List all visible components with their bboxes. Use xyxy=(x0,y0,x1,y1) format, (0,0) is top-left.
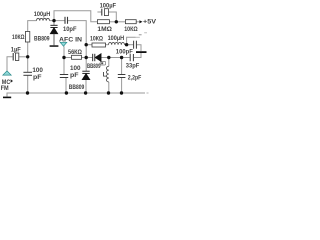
ground G2 bottom-left xyxy=(3,97,11,99)
wire 1uF to node G xyxy=(19,56,27,58)
svg-text:FM: FM xyxy=(1,85,9,92)
svg-text:BB809: BB809 xyxy=(34,35,50,42)
svg-text:1МΩ: 1МΩ xyxy=(97,26,112,33)
svg-text:BB809: BB809 xyxy=(69,84,85,91)
bottom ground rail xyxy=(7,93,145,97)
+5V arrow xyxy=(139,20,142,23)
wire AFC terminal down to node D xyxy=(63,46,65,57)
wire node G down to 100pF C1 xyxy=(27,57,29,72)
varactor D1 BB809 xyxy=(50,21,57,46)
wire 1M to node H to 10K xyxy=(110,21,126,23)
capacitor 33pF xyxy=(130,54,133,61)
junction dot node E xyxy=(107,56,110,59)
junction dot node G xyxy=(26,55,29,58)
svg-text:10КΩ: 10КΩ xyxy=(90,36,103,43)
junction dot rail 4 xyxy=(107,91,110,94)
capacitor C1 100pF xyxy=(23,72,32,75)
resistor R5 10K xyxy=(125,20,136,24)
capacitor C2 100pF xyxy=(60,75,68,78)
wire 10K to +5V arrow xyxy=(136,21,139,23)
svg-text:BB809: BB809 xyxy=(87,63,101,70)
wire node B to varactor D3 xyxy=(86,57,92,59)
svg-text:100µH: 100µH xyxy=(34,11,51,18)
junction dot node H xyxy=(115,20,118,23)
ground G1 xyxy=(50,45,59,47)
wire node E to node F xyxy=(109,57,122,59)
wire 2.2pF down to rail xyxy=(121,78,123,93)
AFC IN terminal teal xyxy=(60,42,67,46)
svg-text:10КΩ: 10КΩ xyxy=(124,26,138,33)
resistor R4 1M xyxy=(97,20,109,24)
capacitor 100uF polarized top xyxy=(102,9,109,16)
wire D3 to node E xyxy=(101,57,109,59)
resistor R1 10K vertical xyxy=(25,32,29,43)
RF out faded dashes xyxy=(139,34,142,36)
ground G3 right xyxy=(136,51,147,53)
svg-text:+5V: +5V xyxy=(143,19,156,26)
RF out line faded tail xyxy=(136,36,140,38)
junction dot node D xyxy=(62,56,65,59)
junction dot rail 5 xyxy=(120,91,123,94)
wire node C up and out (RF out) xyxy=(127,37,136,44)
svg-text:100µH: 100µH xyxy=(108,35,125,42)
wire 100uF right down to node H xyxy=(108,12,116,22)
junction dot rail 3 xyxy=(84,91,87,94)
svg-text:33pF: 33pF xyxy=(126,63,140,70)
wire FM terminal up to 1uF cap xyxy=(7,57,13,71)
svg-text:56КΩ: 56КΩ xyxy=(68,49,82,56)
wire node F down to 2.2pF xyxy=(121,58,123,75)
wire node D to resistor R2 xyxy=(64,57,72,59)
junction dot node A xyxy=(52,19,55,22)
wire top-left corner to resistor R1 xyxy=(28,21,37,32)
svg-text:100: 100 xyxy=(70,65,81,72)
wire 100pF C1 down to rail xyxy=(27,75,29,93)
junction dot node B2 xyxy=(85,56,88,59)
junction dot node B1 xyxy=(85,43,88,46)
capacitor 100pF tank xyxy=(134,41,137,49)
FM terminal teal xyxy=(3,71,11,75)
wire R3 to inductor L2 xyxy=(106,44,109,46)
svg-text:10КΩ: 10КΩ xyxy=(12,34,25,41)
wire inductor L1 to junction A to 10pF xyxy=(50,20,65,22)
inductor L1 100uH xyxy=(37,18,50,20)
svg-text:pF: pF xyxy=(33,74,42,81)
varactor D2 BB809 xyxy=(82,71,89,79)
svg-text:10pF: 10pF xyxy=(63,26,77,33)
wire varactor D2 down to rail xyxy=(85,80,87,93)
wire R1 down to node G xyxy=(27,42,29,57)
wire node A up to top rail xyxy=(54,11,97,22)
svg-text:100µF: 100µF xyxy=(100,3,117,10)
junction dot rail 1 xyxy=(26,91,29,94)
wire R2 to node B xyxy=(82,57,87,59)
capacitor 2.2pF xyxy=(118,75,126,78)
inductor L2 100uH xyxy=(109,42,125,44)
svg-text:2,2pF: 2,2pF xyxy=(128,75,142,82)
wire node F to 33pF xyxy=(122,57,130,59)
wire node E down to coil L3 xyxy=(108,58,110,67)
resistor R2 56K xyxy=(72,55,82,59)
rail end dash xyxy=(147,92,149,94)
wire node B to resistor R3 xyxy=(86,44,92,46)
L3 adjustment box xyxy=(100,61,105,65)
wire 100pF tank cap to ground G3 xyxy=(137,45,141,51)
wire 100uF stub left xyxy=(97,11,101,13)
wire chain B to varactor D2 xyxy=(85,58,87,72)
wire 33pF to ground G3 from below xyxy=(134,53,141,58)
junction dot rail 2 xyxy=(65,91,68,94)
varactor D3 BB809 horizontal xyxy=(93,54,101,61)
wire node D down to 100pF C2 xyxy=(63,58,65,75)
wire 10pF right to chain B down xyxy=(68,21,87,45)
wire coil L3 down to rail xyxy=(108,82,110,93)
svg-text:pF: pF xyxy=(70,72,79,79)
svg-text:L: L xyxy=(103,72,107,79)
junction dot node C xyxy=(125,43,128,46)
wire chain B middle segment xyxy=(85,45,87,58)
junction dot node F xyxy=(120,56,123,59)
capacitor 10pF xyxy=(65,17,68,24)
wire 100pF C2 down to rail xyxy=(65,78,67,93)
capacitor 1uF polarized xyxy=(13,53,19,61)
resistor R3 10K xyxy=(92,43,106,47)
svg-text:1µF: 1µF xyxy=(11,47,21,54)
svg-text:100pF: 100pF xyxy=(116,48,133,55)
svg-text:AFC IN: AFC IN xyxy=(59,36,82,43)
coil L3 vertical xyxy=(107,66,109,82)
wire node C to 100pF tank cap xyxy=(127,44,134,46)
svg-text:100: 100 xyxy=(32,67,43,74)
wire L2 to node C xyxy=(125,44,131,46)
